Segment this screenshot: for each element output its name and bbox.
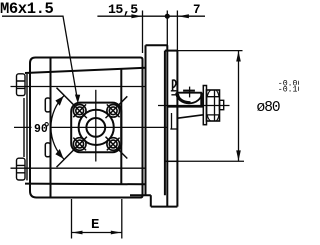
- radial centerline BR: [106, 137, 128, 159]
- arc arrow top: [55, 96, 63, 106]
- side view body bottom step: [150, 195, 152, 206]
- svg-text:E: E: [91, 217, 99, 233]
- lower port fitting centerline: [11, 167, 146, 169]
- svg-text:ø80: ø80: [257, 100, 280, 116]
- plate tick above dome: [171, 91, 177, 95]
- diameter 80 top extension line: [177, 50, 242, 52]
- washer: [203, 86, 206, 125]
- nut: [207, 90, 220, 121]
- plate curl above dome: [172, 80, 174, 91]
- svg-text:7: 7: [193, 3, 201, 17]
- extension line x=167: [166, 11, 168, 51]
- fitting plate vertical x=24: [23, 98, 25, 157]
- flange plate right edge: [176, 51, 178, 207]
- vertical edge x=50.5: [50, 58, 52, 198]
- radial centerline BL: [57, 137, 87, 167]
- extension line x=142.5: [142, 11, 144, 54]
- flange boss rounded square: [71, 103, 121, 153]
- flange slot lower: [45, 143, 50, 157]
- body top band line: [25, 68, 146, 73]
- arrow left at x=176: [178, 14, 189, 18]
- vertical edge x=121.3: [120, 70, 122, 185]
- svg-text:90: 90: [34, 123, 48, 136]
- bolt hole BL: [73, 138, 86, 151]
- nut chamfer curves: [207, 90, 219, 121]
- bolt hole BR: [107, 138, 120, 151]
- flange plate left edge: [166, 45, 168, 206]
- bell housing chord: [176, 92, 202, 94]
- shaft cone bottom: [178, 115, 204, 118]
- bolt hole TL: [73, 104, 86, 117]
- bell housing bowl arc: [176, 93, 202, 104]
- bearing circle: [79, 110, 114, 145]
- top dimension line: [97, 15, 205, 17]
- arrow right at x=142.5: [131, 14, 142, 18]
- E dimension extension lines: [72, 199, 122, 239]
- radial centerline TR: [106, 96, 128, 118]
- radial centerline TL: [57, 88, 87, 118]
- body front face edge: [164, 51, 166, 196]
- vertical centerline: [95, 90, 97, 162]
- bolt hole TR: [107, 104, 120, 117]
- diameter 80 dimension line: [238, 51, 240, 162]
- shaft end stub: [220, 100, 224, 109]
- flange plate bottom edge: [151, 206, 178, 208]
- horizontal centerline: [14, 126, 167, 128]
- arc arrow bottom: [55, 149, 63, 159]
- dot terminator at x=167: [165, 14, 170, 19]
- dim arrow down: [236, 150, 241, 161]
- flange plate top edge: [165, 50, 178, 52]
- key dash on shaft: [183, 90, 195, 92]
- E arrow left: [72, 231, 83, 235]
- key centerline tick: [189, 87, 191, 98]
- leader line M6x1.5: [2, 16, 77, 99]
- shaft cone top: [168, 106, 204, 108]
- side view rear body left edge a: [145, 45, 147, 195]
- spigot bottom edge: [165, 160, 179, 162]
- upper port fitting centerline: [11, 86, 146, 88]
- side view body bottom: [130, 194, 151, 196]
- shaft circle: [86, 118, 105, 137]
- fitting plate vertical x=27: [26, 74, 28, 180]
- extension line x=176: [176, 11, 178, 51]
- bowl inner arc: [178, 94, 191, 103]
- E dimension line: [72, 232, 122, 234]
- spigot relief step horizontal: [170, 128, 177, 130]
- upper port fitting hex: [17, 74, 26, 96]
- svg-text:-0.10: -0.10: [278, 86, 299, 95]
- diameter 80 bottom extension line: [179, 160, 245, 162]
- lower port fitting hex: [17, 158, 26, 180]
- flange slot upper: [45, 98, 50, 112]
- shaft centerline: [158, 105, 230, 107]
- spigot relief step vertical: [171, 113, 173, 129]
- svg-text:M6x1.5: M6x1.5: [0, 0, 54, 18]
- nut chamfer lines: [207, 90, 220, 121]
- 90 degree arc: [51, 95, 64, 159]
- E arrow right: [111, 231, 122, 235]
- front view body outline: [30, 58, 143, 198]
- dim arrow up: [236, 51, 241, 62]
- side view body top: [146, 44, 168, 46]
- leader arrowhead: [75, 95, 80, 104]
- body bottom band line: [25, 183, 146, 186]
